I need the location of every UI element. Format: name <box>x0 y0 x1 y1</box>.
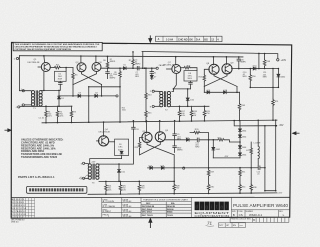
capacitor C14 <box>258 166 260 170</box>
wire +10V drop <box>258 53 260 68</box>
wire lower output rail <box>250 86 278 88</box>
wire column from trigger to ground (x=258) <box>257 120 259 146</box>
resistor R5 <box>72 68 74 85</box>
diode D21 <box>277 69 279 88</box>
transistor Q1 <box>41 63 50 72</box>
transistor & diode conversion chart <box>141 197 192 217</box>
transistor Q3 <box>92 63 101 72</box>
resistor R16 <box>204 69 209 86</box>
wire lower output row <box>166 139 187 141</box>
resistor R49 column to ground <box>239 92 241 120</box>
transistor Q2 <box>77 63 86 72</box>
capacitor C12 <box>238 57 240 69</box>
resistor R21 <box>218 139 225 142</box>
wire bus A left drop <box>142 52 144 69</box>
resistor R6 <box>107 56 109 68</box>
wire column to ground <box>88 87 90 122</box>
wire -15V feed <box>234 121 276 126</box>
outer drawing border frame <box>11 43 292 219</box>
diode D19 <box>161 166 164 169</box>
resistor R46 column <box>250 142 252 193</box>
diode D13 <box>150 166 153 169</box>
resistor R29/R30 column <box>208 140 210 194</box>
down arrow above border <box>149 35 152 42</box>
transistor Q4 <box>99 136 109 146</box>
resistor R48 <box>264 54 266 69</box>
capacitor C9 column <box>174 121 176 153</box>
resistor R31/R34 column <box>239 168 241 193</box>
wire Q2 collector <box>80 56 82 63</box>
node open terminal <box>116 95 118 97</box>
wire Q4 base stub <box>97 140 100 142</box>
wire -15V stub <box>213 157 240 159</box>
signature squiggle <box>79 175 88 179</box>
top revision strip <box>156 36 222 41</box>
transformer T2 <box>160 91 171 106</box>
node open terminal out <box>156 67 158 69</box>
DEC digital logo block <box>230 197 232 217</box>
label C10 <box>242 72 247 78</box>
up arrow under border <box>149 219 152 228</box>
resistor R17 <box>179 106 181 121</box>
wire T2 bottom row <box>171 105 210 107</box>
wire Q1 base stub <box>38 66 41 68</box>
node open terminal <box>183 167 185 169</box>
wire Q8 collector <box>212 57 214 65</box>
wire cross-coupling X of Q5/Q6 <box>140 141 175 154</box>
wire box to T3 <box>90 156 122 164</box>
resistor R9 column <box>119 68 121 122</box>
resistor R51 column <box>272 69 274 121</box>
wire Q7 base stub <box>167 68 172 70</box>
wire trigger line with D3/D4 <box>59 95 116 97</box>
notice box top-left <box>13 42 102 51</box>
wire collector bus B <box>19 56 243 57</box>
diode D4 <box>95 94 98 97</box>
revision table bottom-left grid <box>11 198 34 218</box>
dist strip bottom <box>218 223 245 228</box>
diode network D8 box 3009 <box>184 71 197 81</box>
transistor Q8 <box>209 64 219 74</box>
wire lower ground bus <box>88 193 277 194</box>
resistor R1 <box>45 106 47 123</box>
capacitor C8 column <box>119 121 133 164</box>
capacitor C13 <box>197 138 199 142</box>
wire Q6 collector <box>159 121 161 133</box>
wire Q7 emitter down <box>173 74 176 89</box>
printed circuit rev strip below title block <box>230 217 289 222</box>
diode D3 <box>78 94 81 97</box>
transformer T3 <box>88 164 99 180</box>
title block band top line <box>11 196 290 198</box>
diode D15 <box>212 140 214 158</box>
capacitor C1 <box>59 81 61 82</box>
transformer T1 <box>31 91 42 106</box>
label C11 <box>263 72 268 78</box>
diode D5 <box>123 67 126 70</box>
capacitor C6 / diode D7 column <box>151 68 153 79</box>
wire lower output line <box>148 167 259 169</box>
notes text block <box>21 138 64 159</box>
capacitor C5 <box>107 68 109 78</box>
resistor R26 <box>138 181 140 194</box>
node +10V terminal <box>277 59 279 61</box>
wire Q4 collector <box>103 122 105 136</box>
wire T3 top right <box>99 163 119 165</box>
diode D14 <box>186 138 189 141</box>
wire Q9 collector <box>225 57 227 65</box>
wire Q1 collector <box>43 56 46 63</box>
diode D20 <box>253 67 256 70</box>
transistor Q6 <box>155 132 165 142</box>
resistor R18 <box>191 106 193 121</box>
resistor R7 <box>132 52 134 68</box>
right edge fold arrow <box>293 132 300 135</box>
transistor Q5 <box>142 132 152 142</box>
wire Q3 collector <box>95 56 97 62</box>
resistor R19A column <box>140 137 143 154</box>
resistor R13/R15 column <box>145 68 147 122</box>
inductor L1 <box>258 146 259 159</box>
wire Q5 collector <box>145 121 147 133</box>
diode network D9 box 3009 <box>108 141 114 143</box>
transistor Q7 <box>172 65 181 74</box>
resistor R3 <box>71 106 73 122</box>
wire to -15V corner <box>260 120 276 191</box>
diode network D2 box 3009 <box>55 71 67 81</box>
diode D18 <box>224 91 227 94</box>
wire Q7 collector <box>175 57 177 65</box>
size/code/number row <box>231 210 289 217</box>
document number table <box>102 198 141 218</box>
capacitor C2 <box>190 81 192 82</box>
diode D1 <box>58 90 60 106</box>
wire X leg to output <box>173 155 175 194</box>
resistor R25 <box>119 181 121 194</box>
left edge fold arrow <box>5 129 12 132</box>
wire +10V rail bus A <box>142 52 278 59</box>
wire X legs down <box>73 85 102 96</box>
resistor R24 <box>105 181 107 194</box>
resistor R50 <box>249 69 251 88</box>
transistor Q9 <box>222 64 232 74</box>
diode D17 <box>207 91 210 94</box>
resistor R19 <box>204 106 206 121</box>
resistor R28 <box>173 184 176 191</box>
wire T2 top loop <box>172 89 191 98</box>
diode D11 <box>118 164 120 181</box>
wire T3 bottom row <box>99 180 174 182</box>
wire ground bus <box>42 120 277 123</box>
wire <box>19 56 31 91</box>
wire output row right <box>232 68 279 70</box>
wire main output row <box>101 67 156 69</box>
wire <box>20 105 72 107</box>
resistor R2 <box>57 106 59 122</box>
wire Q1 emitter down <box>43 71 45 90</box>
diode chain D22-D25 <box>239 121 241 158</box>
capacitor C7 <box>137 66 139 70</box>
edge connector strip <box>27 186 87 193</box>
wire cross rail <box>89 86 120 88</box>
wire cross-coupling X of Q2/Q3 <box>73 72 102 85</box>
wire trigger line FF2 <box>204 91 239 93</box>
wire cross-coupling X of Q8/Q9 <box>204 73 237 86</box>
diode D16 <box>186 98 189 101</box>
